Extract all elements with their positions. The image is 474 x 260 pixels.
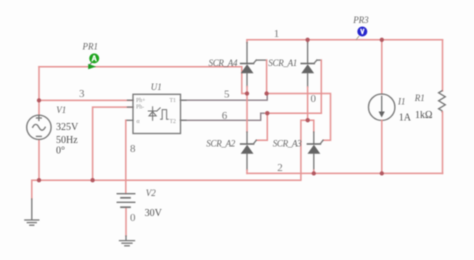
svg-text:Ph+: Ph+ — [136, 98, 145, 104]
svg-text:PR3: PR3 — [352, 15, 369, 25]
wire battery to ground — [125, 207, 127, 236]
svg-text:T2: T2 — [170, 119, 177, 125]
svg-text:2: 2 — [277, 162, 283, 174]
firing circuit U1 — [126, 94, 186, 133]
wire net 5 from U1 T1 — [181, 96, 268, 101]
SCR_A2 thyristor — [241, 94, 257, 174]
wire net 3 PR1 segment — [39, 67, 247, 94]
wire net 2 bottom bus — [247, 172, 443, 174]
U1 inner symbol — [148, 107, 168, 121]
svg-text:I1: I1 — [397, 96, 406, 106]
svg-text:SCR_A3: SCR_A3 — [273, 139, 302, 149]
SCR_A3 thyristor — [307, 132, 323, 173]
AC source V1 — [27, 115, 51, 139]
junction net2 at I1 — [380, 171, 384, 175]
svg-text:0: 0 — [130, 212, 136, 224]
svg-text:1: 1 — [274, 28, 280, 40]
svg-text:SCR_A1: SCR_A1 — [268, 58, 297, 68]
junction net0 at Ph- — [90, 178, 94, 182]
svg-text:V2: V2 — [146, 188, 156, 198]
wire net 5 to A3 gate — [267, 94, 331, 141]
ground GND1 — [25, 199, 39, 225]
svg-text:8: 8 — [130, 143, 136, 155]
junction net3 at V1 top — [37, 98, 41, 102]
wire to ground 1 — [32, 180, 39, 199]
wire net 6 to A2 gate — [256, 113, 267, 140]
svg-text:1A: 1A — [399, 113, 412, 124]
probe PR3 — [356, 27, 367, 40]
junction net1 at I1 — [380, 38, 384, 42]
wire net 8 alpha to V2 — [125, 120, 127, 193]
wire net 3 V1 top vertical — [38, 67, 40, 116]
svg-text:30V: 30V — [145, 208, 163, 219]
svg-text:SCR_A2: SCR_A2 — [206, 139, 235, 149]
wire net 6 gate A1 — [320, 60, 322, 113]
SCR_A4 thyristor — [241, 40, 267, 94]
SCR_A1 thyristor — [301, 40, 321, 120]
junction net0 right leg — [306, 118, 310, 122]
resistor R1 — [439, 40, 446, 174]
svg-text:0°: 0° — [56, 145, 65, 156]
wire net 6 from U1 T2 — [181, 113, 266, 120]
svg-text:PR1: PR1 — [82, 41, 99, 51]
wire net 6 dot to A1 gate — [265, 112, 321, 114]
svg-text:V1: V1 — [56, 105, 66, 115]
wire net 1 top bus — [247, 39, 443, 41]
svg-text:1kΩ: 1kΩ — [415, 110, 432, 121]
svg-text:SCR_A4: SCR_A4 — [209, 58, 238, 68]
svg-text:5: 5 — [224, 89, 230, 101]
svg-text:0: 0 — [311, 93, 317, 105]
svg-text:6: 6 — [222, 110, 228, 122]
junction net2 at A3 — [312, 171, 316, 175]
svg-text:R1: R1 — [414, 93, 425, 103]
ground GND2 — [120, 241, 135, 246]
svg-text:Ph-: Ph- — [136, 105, 144, 111]
probe PR1 — [88, 53, 99, 69]
wire net 0 Ph- to bottom bus — [93, 107, 133, 180]
wire net 5 gate A4 — [266, 60, 268, 93]
svg-text:325V: 325V — [56, 122, 79, 133]
U1 pin labels — [136, 98, 176, 125]
current source I1 — [369, 40, 395, 174]
wire net 0 bottom bus — [32, 120, 308, 180]
junction net1 at A1 — [305, 38, 309, 42]
wire net 0 right leg jog — [308, 120, 314, 132]
svg-text:U1: U1 — [151, 82, 162, 92]
svg-text:3: 3 — [79, 88, 85, 100]
wire V1 bottom — [38, 140, 40, 181]
junction net3 bridge left — [245, 91, 249, 95]
junction net6 — [265, 111, 269, 115]
junction net5 — [264, 91, 268, 95]
svg-text:T1: T1 — [170, 98, 177, 104]
svg-text:α: α — [137, 119, 140, 125]
junction net0 at V1 bottom — [37, 178, 41, 182]
wire net 3 to U1 Ph+ — [39, 99, 133, 101]
battery V2 — [117, 194, 135, 240]
